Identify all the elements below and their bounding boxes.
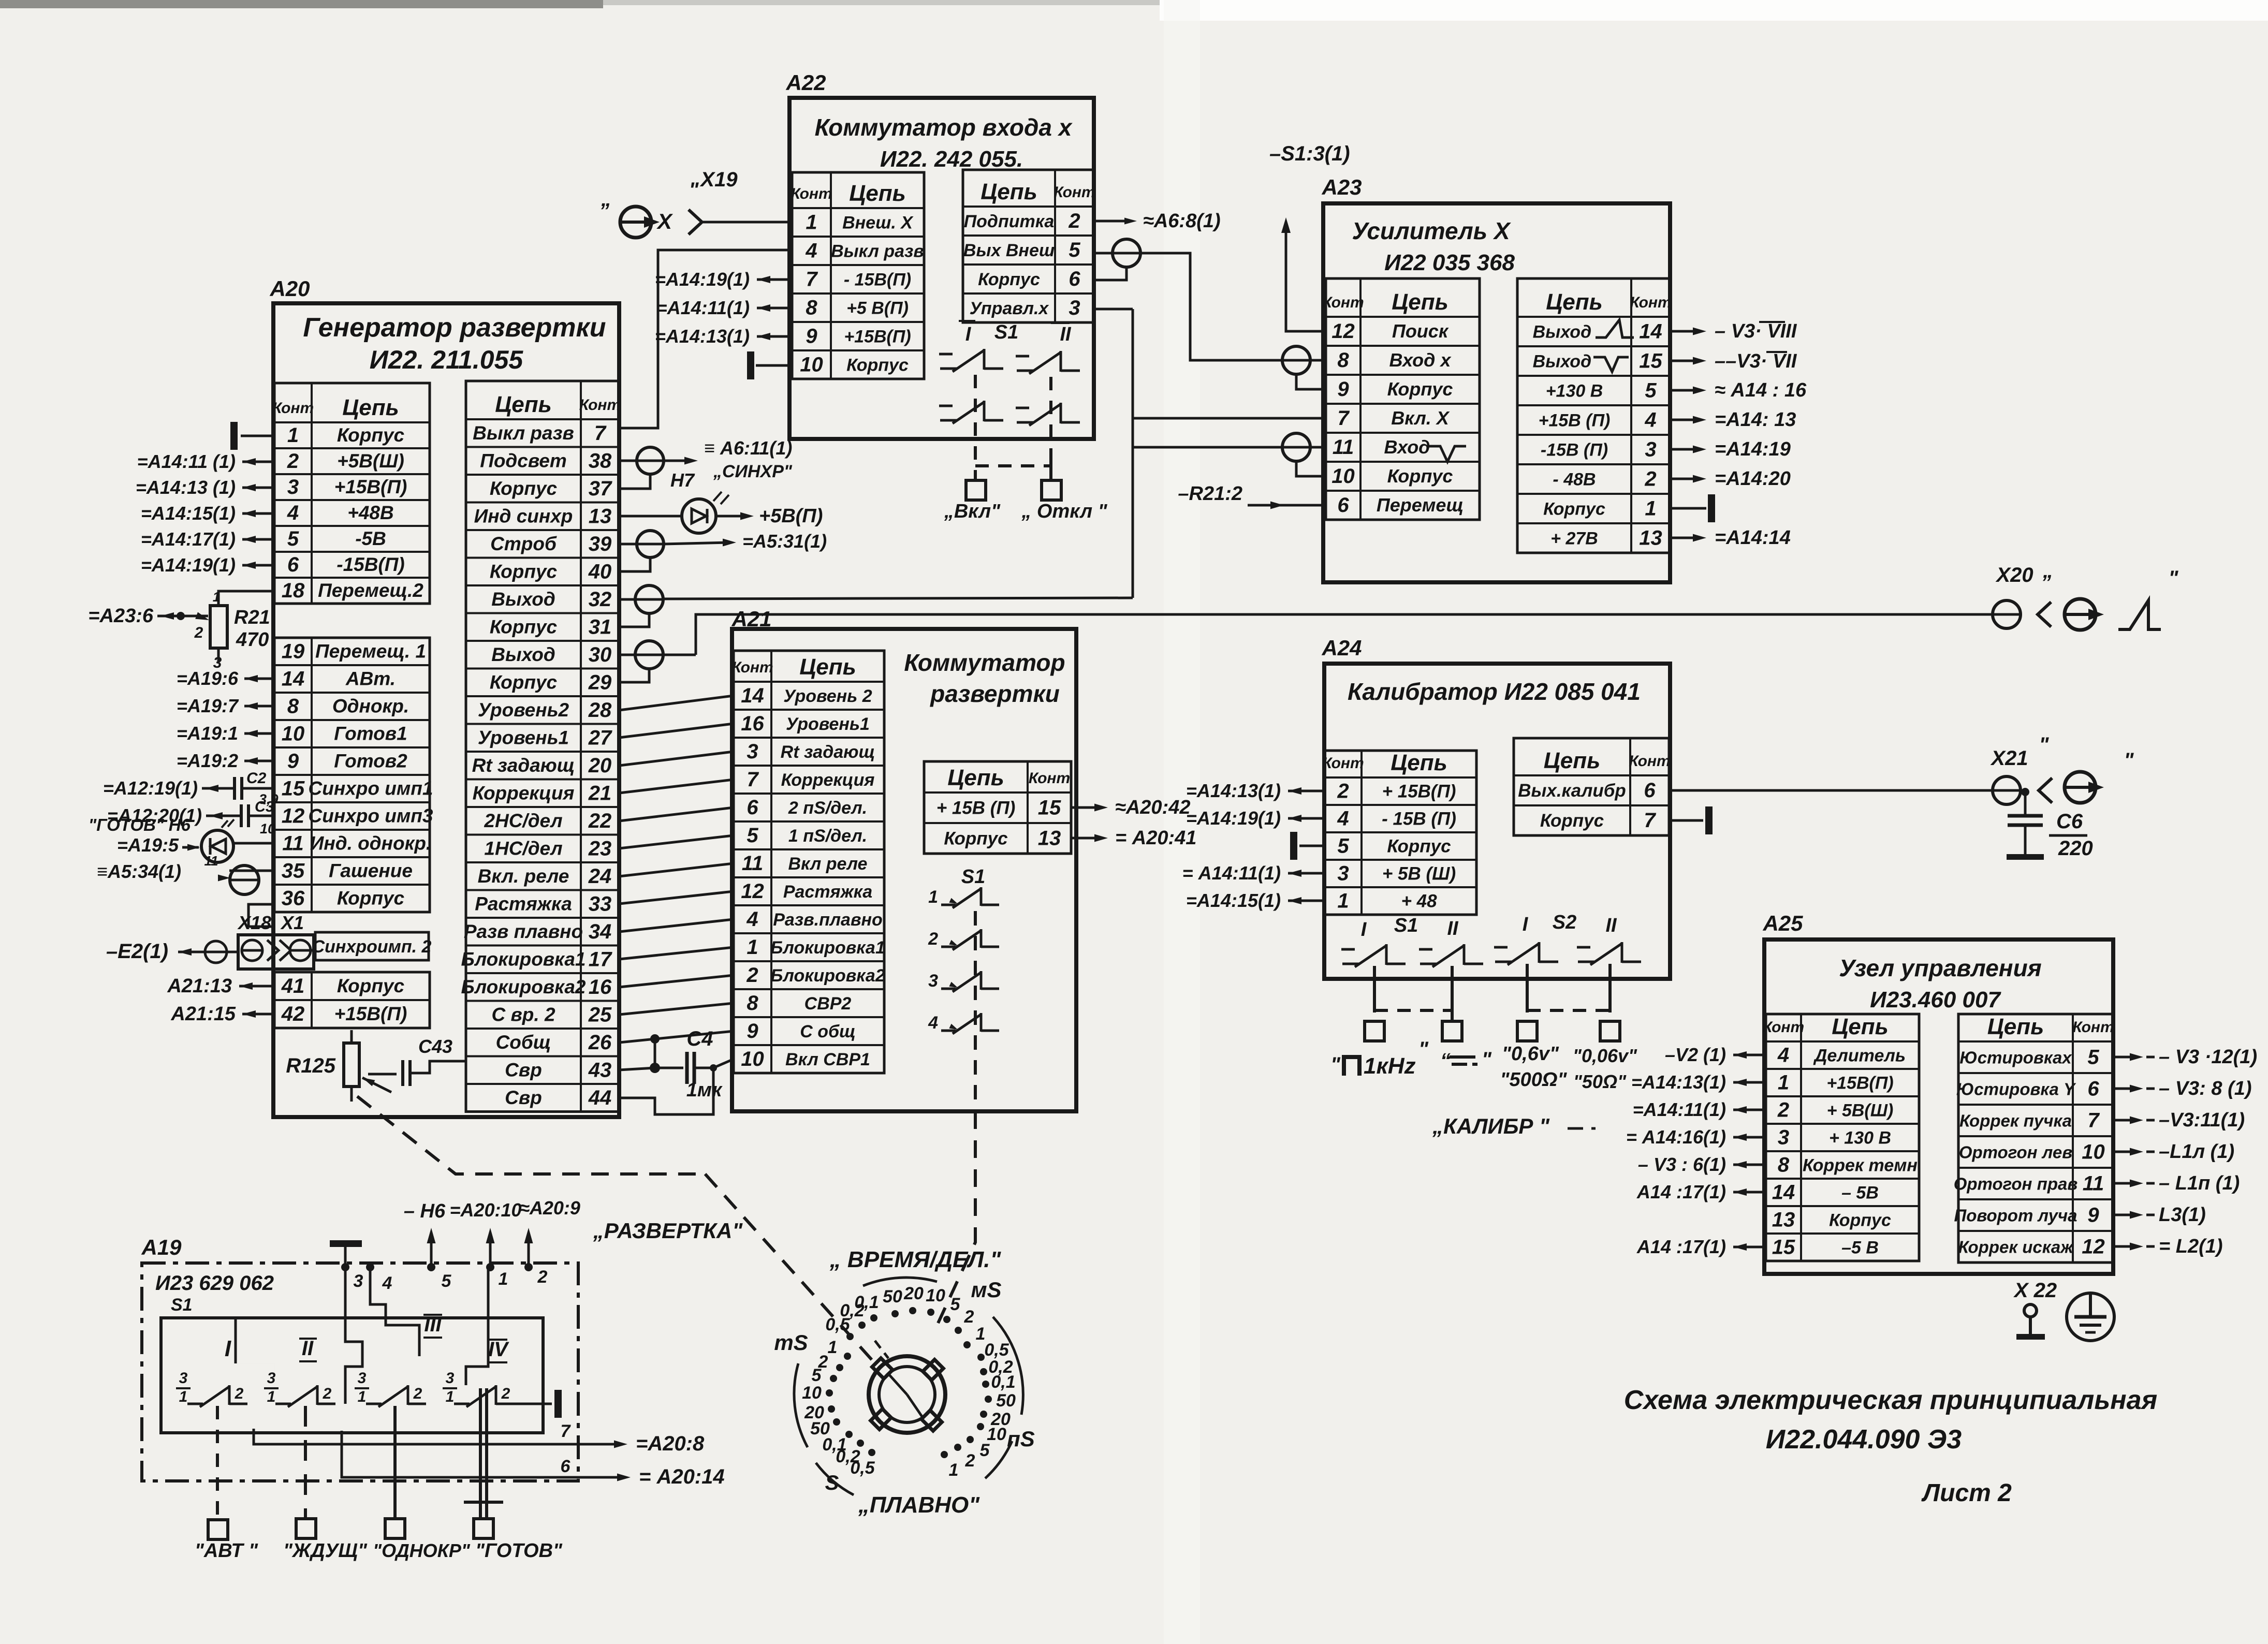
label A14:16 at A25 left	[1733, 1136, 1766, 1139]
svg-text:Ортогон прав: Ортогон прав	[1954, 1175, 2078, 1194]
svg-text:С43: С43	[418, 1036, 452, 1057]
svg-text:Корпус: Корпус	[978, 270, 1040, 289]
A19 contact section IV	[454, 1403, 470, 1405]
svg-text:=А14:15(1): =А14:15(1)	[141, 503, 236, 524]
svg-text:–R21:2: –R21:2	[1178, 483, 1242, 505]
label V3:11 at A25 right	[2114, 1119, 2137, 1122]
svg-text:"500Ω": "500Ω"	[1500, 1069, 1567, 1091]
svg-text:Коррек искаж: Коррек искаж	[1958, 1238, 2074, 1257]
svg-text:-15В (П): -15В (П)	[1541, 441, 1608, 460]
svg-text:2: 2	[746, 964, 758, 987]
wire A20:22 to A21:6	[619, 808, 734, 821]
svg-text:R125: R125	[286, 1054, 335, 1077]
svg-text:10: 10	[1331, 465, 1355, 488]
svg-text:2: 2	[1777, 1099, 1789, 1122]
svg-text:-5В: -5В	[355, 528, 386, 549]
svg-text:4: 4	[287, 502, 299, 524]
svg-text:"50Ω": "50Ω"	[1573, 1071, 1627, 1092]
svg-text:=А14:15(1): =А14:15(1)	[1186, 890, 1281, 911]
svg-text:1: 1	[928, 887, 938, 907]
svg-text:– V3· VIII: – V3· VIII	[1715, 320, 1797, 342]
label A14:17b at A25 left	[1733, 1246, 1766, 1249]
svg-text:III: III	[424, 1313, 442, 1336]
svg-text:13: 13	[1772, 1209, 1795, 1231]
svg-text:14: 14	[1639, 320, 1662, 343]
svg-text:Перемещ: Перемещ	[1377, 494, 1464, 516]
node 3 with ground	[341, 1263, 349, 1271]
svg-text:= А20:14: = А20:14	[639, 1465, 725, 1488]
svg-text:5: 5	[747, 824, 758, 847]
coax jack at A23 pin 11	[1282, 433, 1310, 461]
capacitor C3 10 at A20 pin 12	[248, 815, 274, 817]
svg-text:Х 22: Х 22	[2013, 1279, 2057, 1302]
label =A14:11 at A20 pin 2	[242, 461, 274, 463]
svg-text:=А14:11 (1): =А14:11 (1)	[137, 451, 236, 472]
svg-text:И22 035 368: И22 035 368	[1384, 250, 1515, 275]
dashed control link S1-II to Otkl button	[1049, 377, 1052, 459]
svg-text:Корпус: Корпус	[337, 424, 405, 446]
svg-text:Юстировка Y: Юстировка Y	[1956, 1080, 2076, 1099]
svg-text:А21:15: А21:15	[170, 1003, 236, 1025]
svg-text:–Е2(1): –Е2(1)	[106, 940, 168, 963]
svg-text:38: 38	[589, 449, 612, 472]
svg-text:Инд синхр: Инд синхр	[474, 505, 573, 526]
svg-text:1: 1	[1337, 890, 1349, 913]
svg-text:„Вкл": „Вкл"	[944, 501, 1001, 522]
svg-text:А23: А23	[1321, 175, 1362, 199]
svg-text:3: 3	[1645, 438, 1656, 461]
svg-text:Цепь: Цепь	[1544, 748, 1601, 773]
svg-text:": "	[2124, 749, 2134, 772]
svg-text:+ 48: + 48	[1401, 891, 1437, 912]
svg-text:10: 10	[926, 1286, 945, 1305]
svg-text:Однокр.: Однокр.	[332, 696, 409, 717]
svg-text:17: 17	[589, 948, 612, 971]
svg-text:20: 20	[903, 1284, 924, 1303]
A19 bottom internal bus 6	[342, 1431, 624, 1477]
svg-text:2: 2	[287, 450, 299, 473]
svg-text:= L2(1): = L2(1)	[2159, 1236, 2223, 1257]
svg-text:": "	[689, 179, 699, 201]
svg-text:Вкл СВР1: Вкл СВР1	[785, 1050, 870, 1069]
svg-text:Свр: Свр	[505, 1059, 542, 1080]
svg-text:"0,6v": "0,6v"	[1502, 1043, 1559, 1065]
svg-text:=А12:19(1): =А12:19(1)	[103, 777, 198, 799]
svg-text:„: „	[2042, 560, 2053, 582]
svg-text:Конт: Конт	[1763, 1019, 1804, 1036]
svg-text:37: 37	[589, 477, 612, 500]
svg-text:=А14: 13: =А14: 13	[1715, 409, 1796, 431]
block A21 kommutator razvertki box	[732, 629, 1076, 1111]
svg-text:=А14:20: =А14:20	[1715, 468, 1791, 490]
svg-text:11: 11	[204, 853, 218, 869]
svg-text:36: 36	[282, 887, 305, 910]
svg-text:Узел управления: Узел управления	[1839, 955, 2042, 981]
label =A14:14 at A23 pin 13	[1670, 537, 1700, 539]
svg-text:=А19:5: =А19:5	[117, 834, 179, 856]
S1 contact 3	[941, 988, 956, 990]
label L1l at A25 right	[2114, 1151, 2137, 1153]
S2-I contact	[1495, 961, 1512, 963]
svg-text:=А20:10: =А20:10	[449, 1199, 521, 1221]
wire A20:23 to A21:5	[619, 835, 734, 848]
svg-text:7: 7	[747, 768, 759, 791]
svg-text:1: 1	[806, 211, 817, 234]
svg-text:11: 11	[1333, 436, 1354, 459]
coax jack at A20 pin 39 strob	[619, 543, 637, 546]
svg-text:4: 4	[928, 1013, 938, 1033]
svg-text:4: 4	[382, 1273, 392, 1293]
svg-text:-15В(П): -15В(П)	[336, 554, 404, 575]
svg-text:Перемещ. 1: Перемещ. 1	[315, 641, 426, 662]
svg-text:I: I	[225, 1336, 231, 1361]
wire A20:27 to A21:16	[619, 724, 734, 738]
coax shield to A20 pin 40	[619, 557, 650, 571]
svg-text:2: 2	[323, 1385, 332, 1402]
svg-text:Подпитка: Подпитка	[964, 212, 1055, 231]
coax shield to A20 pin 29	[619, 669, 649, 682]
svg-text:+15В(П): +15В(П)	[844, 327, 911, 347]
svg-text:пS: пS	[1007, 1427, 1035, 1451]
svg-text:= А14:16(1): = А14:16(1)	[1626, 1126, 1726, 1148]
svg-text:1: 1	[1778, 1071, 1789, 1094]
svg-text:С общ: С общ	[800, 1022, 856, 1041]
svg-text:14: 14	[741, 684, 764, 707]
svg-text:IV: IV	[488, 1338, 509, 1361]
label =A6:8 at A22 pin 2	[1094, 220, 1132, 223]
svg-text:3: 3	[1337, 862, 1349, 885]
svg-text:Коррекция: Коррекция	[473, 782, 575, 803]
label =A14:13 at A20 pin 3	[242, 487, 274, 489]
A19 internal wiring III jog	[345, 1267, 362, 1404]
svg-text:5: 5	[2087, 1046, 2099, 1069]
wire A20:44 loop to C4 node	[619, 1068, 713, 1114]
svg-text:– Н6: – Н6	[404, 1200, 446, 1222]
wire A20:21 to A21:7	[619, 780, 734, 793]
svg-text:Схема электрическая принципи: Схема электрическая принципиальная	[1624, 1385, 2157, 1415]
svg-text:II: II	[1447, 918, 1459, 940]
coax shield to A23 pin 9	[1296, 374, 1326, 389]
svg-text:7: 7	[594, 422, 607, 445]
wire A22 pin 5 to A23 pin 8	[1140, 253, 1283, 360]
label =A14:17 at A20 pin 5	[242, 538, 274, 541]
svg-text:С4: С4	[686, 1027, 713, 1050]
svg-text:– 5В: – 5В	[1841, 1183, 1879, 1203]
svg-text:12: 12	[1331, 320, 1355, 343]
label A14:13 at A25 left	[1733, 1081, 1766, 1084]
svg-text:13: 13	[589, 505, 612, 527]
svg-text:+15В(П): +15В(П)	[1826, 1074, 1893, 1093]
label =A20:41 at A21 pin 13	[1071, 837, 1102, 840]
label -R21:2 to A23 pin 6	[1248, 504, 1326, 507]
svg-text:5: 5	[1337, 835, 1349, 858]
svg-text:„ПЛАВНО": „ПЛАВНО"	[858, 1492, 980, 1518]
svg-text:50: 50	[996, 1391, 1016, 1411]
svg-text:Выкл разв: Выкл разв	[831, 242, 924, 261]
svg-text:12: 12	[741, 880, 764, 903]
button 1kHz	[1365, 1021, 1384, 1041]
svg-text:"ГОТОВ" Н6: "ГОТОВ" Н6	[89, 815, 191, 834]
svg-text:6: 6	[1337, 494, 1349, 517]
svg-text:+ 15В (П): + 15В (П)	[937, 798, 1016, 818]
svg-text:Конт: Конт	[579, 397, 621, 414]
svg-text:мS: мS	[971, 1278, 1001, 1302]
wire A20:43 to C4	[619, 1068, 655, 1070]
svg-text:Коррек пучка: Коррек пучка	[1959, 1111, 2072, 1131]
svg-text:Свр: Свр	[505, 1087, 542, 1108]
svg-text:27: 27	[588, 726, 612, 749]
wire A20:16 to A21:2	[619, 975, 734, 987]
svg-text:1кHz: 1кHz	[1364, 1053, 1416, 1079]
svg-text:11: 11	[742, 852, 764, 875]
svg-text:Выход: Выход	[1533, 352, 1616, 372]
svg-text:1 пS/дел.: 1 пS/дел.	[788, 826, 867, 846]
wire A20:28 to A21:14	[619, 696, 734, 710]
svg-text:": "	[2169, 567, 2179, 590]
svg-text:Внеш. Х: Внеш. Х	[842, 213, 914, 233]
wire A20 pin 18 to R21	[218, 591, 274, 606]
wire X19 to A22 pin 1	[703, 221, 792, 224]
switch S1 lower contacts II	[1017, 421, 1033, 424]
svg-text:Конт: Конт	[272, 400, 314, 417]
wire A20:17 to A21:1	[619, 947, 734, 959]
node 5 arrow -H6	[427, 1263, 435, 1271]
svg-text:Юстировках: Юстировках	[1959, 1048, 2072, 1067]
svg-text:9: 9	[747, 1020, 758, 1043]
wire A20:26 to A21:9 with junction	[619, 1031, 734, 1043]
svg-text:≈А20:42: ≈А20:42	[1115, 797, 1191, 818]
svg-text:=А5:31(1): =А5:31(1)	[742, 531, 827, 552]
svg-text:32: 32	[589, 588, 612, 611]
A19 internal wiring IV jog	[466, 1267, 488, 1385]
knob arc S range	[816, 1463, 854, 1495]
svg-text:Блокировка1: Блокировка1	[461, 948, 586, 970]
dashed control link S1-I to Vkl button	[974, 375, 977, 480]
ground at A22 pin 10	[756, 364, 792, 367]
svg-text:Х1: Х1	[280, 912, 304, 933]
svg-text:35: 35	[282, 860, 305, 883]
svg-text:Готов1: Готов1	[334, 723, 407, 744]
svg-text:Цепь: Цепь	[342, 395, 399, 420]
svg-text:Готов2: Готов2	[334, 751, 407, 772]
svg-text:3: 3	[267, 1370, 276, 1387]
svg-text:=А14:19(1): =А14:19(1)	[1186, 808, 1281, 829]
svg-text:5: 5	[1069, 239, 1080, 261]
svg-text:II: II	[1060, 324, 1072, 345]
label =A14:13 at A23 pin 4	[1670, 419, 1700, 421]
svg-text:- 15В (П): - 15В (П)	[1382, 809, 1456, 829]
svg-text:15: 15	[282, 777, 305, 800]
ground at A24 pin 7	[1669, 819, 1703, 822]
svg-text:S1: S1	[1394, 915, 1418, 936]
svg-text:1: 1	[1645, 497, 1656, 520]
label A21:15 at A20 pin 42	[242, 1013, 274, 1016]
svg-text:– V3 : 6(1): – V3 : 6(1)	[1638, 1154, 1726, 1175]
label =A14:19 at A20 pin 6	[242, 564, 274, 567]
svg-text:34: 34	[589, 920, 612, 943]
label -V3 VIII at A23 pin 14	[1670, 330, 1700, 333]
label =A19:2 at A20 pin 9	[244, 760, 274, 762]
svg-text:30: 30	[589, 643, 612, 666]
svg-text:7: 7	[806, 268, 818, 291]
svg-text:2: 2	[537, 1267, 548, 1287]
svg-text:14: 14	[1772, 1181, 1795, 1204]
junction dot at X21	[2021, 788, 2029, 796]
button АВТ with dashed link	[216, 1406, 219, 1520]
svg-text:10: 10	[2082, 1141, 2105, 1164]
svg-text:33: 33	[589, 892, 612, 915]
ground at A23 pin 1	[1670, 507, 1706, 510]
svg-text:Поворот луча: Поворот луча	[1954, 1206, 2077, 1225]
svg-text:1: 1	[179, 1388, 188, 1405]
coax jack at A20 pin 35 =A5:34	[229, 870, 274, 872]
svg-text:470: 470	[236, 629, 269, 651]
svg-text:–5 В: –5 В	[1841, 1238, 1879, 1258]
svg-text:И22. 211.055: И22. 211.055	[370, 345, 524, 374]
svg-text:5: 5	[950, 1295, 961, 1314]
dashed mech line A21 S1 to knob	[938, 1111, 975, 1323]
svg-text:1: 1	[213, 589, 220, 605]
ground at A20 pin 1	[241, 435, 274, 437]
svg-text:А25: А25	[1762, 911, 1803, 935]
svg-text:–S1:3(1): –S1:3(1)	[1269, 142, 1350, 165]
svg-text:Х18: Х18	[237, 912, 271, 933]
svg-text:3: 3	[358, 1370, 367, 1387]
svg-text:Вых Внеш: Вых Внеш	[963, 241, 1055, 260]
wire A20:34 to A21:4	[619, 919, 734, 932]
svg-text:Конт: Конт	[791, 185, 832, 202]
svg-text:= А14:11(1): = А14:11(1)	[1182, 862, 1281, 884]
svg-text:+15В (П): +15В (П)	[1539, 411, 1611, 431]
svg-text:=А14:13(1): =А14:13(1)	[1631, 1071, 1726, 1093]
svg-text:Корпус: Корпус	[490, 478, 558, 499]
svg-text:Калибратор И22 085 041: Калибратор И22 085 041	[1348, 678, 1641, 705]
svg-text:20: 20	[588, 754, 612, 777]
coax jack at A20 pin 38 sinhr	[619, 460, 637, 462]
svg-text:=А14:17(1): =А14:17(1)	[141, 529, 236, 550]
svg-text:––V3· VII: ––V3· VII	[1715, 350, 1797, 372]
svg-text:+ 130 В: + 130 В	[1829, 1128, 1891, 1148]
svg-text:С6: С6	[2056, 810, 2083, 833]
svg-text:И23 629 062: И23 629 062	[155, 1272, 274, 1295]
svg-text:Х21: Х21	[1990, 747, 2028, 770]
svg-text:R21: R21	[234, 607, 270, 628]
knob arc right upper range	[993, 1317, 1023, 1415]
switch S1 lower contacts I	[940, 419, 957, 422]
svg-text:21: 21	[588, 782, 612, 804]
capacitor C6 220	[2024, 792, 2027, 816]
block A25 uzel upravleniya box	[1764, 940, 2113, 1274]
block A24 kalibrator box	[1324, 664, 1670, 979]
svg-text:5: 5	[812, 1366, 822, 1385]
svg-text:Цепь: Цепь	[981, 179, 1037, 204]
svg-text:АВт.: АВт.	[345, 668, 396, 689]
wire A20:33 to A21:12	[619, 891, 734, 904]
A19 switch inner box	[161, 1318, 543, 1433]
svg-text:Коммутатор: Коммутатор	[904, 649, 1065, 676]
label V3:8 at A25 right	[2114, 1088, 2137, 1090]
svg-text:2: 2	[413, 1385, 422, 1402]
S1-II contact	[1420, 963, 1437, 965]
knob arc top range	[863, 1278, 937, 1286]
svg-text:Синхро имп3: Синхро имп3	[309, 805, 433, 827]
svg-text:1НС/дел: 1НС/дел	[484, 838, 562, 859]
button square Otkl	[1042, 480, 1061, 500]
svg-text:Разв плавно: Разв плавно	[464, 921, 583, 942]
svg-text:1: 1	[499, 1269, 508, 1289]
A19 internal wiring from node 4	[370, 1267, 419, 1356]
svg-text:4: 4	[805, 240, 817, 262]
svg-text:3: 3	[747, 740, 758, 763]
svg-text:Ортогон лев: Ортогон лев	[1959, 1143, 2072, 1162]
svg-text:Коммутатор входа х: Коммутатор входа х	[815, 114, 1073, 141]
svg-text:–V2 (1): –V2 (1)	[1665, 1044, 1726, 1065]
svg-text:": "	[1418, 1038, 1429, 1061]
svg-text:2: 2	[194, 624, 203, 641]
svg-text:22: 22	[588, 810, 612, 832]
svg-text:6: 6	[1644, 779, 1656, 802]
svg-text:≈А20:9: ≈А20:9	[519, 1197, 580, 1219]
svg-text:5: 5	[287, 527, 299, 550]
svg-text:26: 26	[588, 1031, 612, 1054]
button ==	[1442, 1021, 1462, 1041]
ground bar right of A19	[554, 1390, 562, 1418]
svg-text:9: 9	[806, 325, 817, 348]
svg-text:I: I	[1361, 919, 1367, 941]
svg-text:развертки: развертки	[929, 680, 1060, 707]
svg-text:2: 2	[1068, 210, 1080, 232]
label =A19:7 at A20 pin 8	[244, 705, 274, 708]
svg-text:4: 4	[1777, 1044, 1789, 1067]
svg-text:39: 39	[589, 533, 612, 555]
capacitor C43	[368, 1073, 397, 1076]
wire from A20 pin 32 output	[663, 598, 1133, 599]
block A20 generator razvertki outer box	[273, 303, 619, 1117]
label -S1:3 with arrow up from A23 pin 12	[1286, 224, 1326, 331]
S1-II drop to button	[1451, 966, 1454, 1021]
svg-text:19: 19	[282, 640, 305, 663]
svg-text:Корпус: Корпус	[1387, 465, 1453, 487]
svg-text:Корпус: Корпус	[944, 829, 1007, 849]
svg-text:13: 13	[1639, 527, 1662, 550]
node 1 arrow =A20:10	[486, 1263, 494, 1271]
svg-text:1: 1	[949, 1460, 959, 1480]
svg-text:– V3: 8 (1): – V3: 8 (1)	[2159, 1078, 2252, 1099]
svg-text:Уровень1: Уровень1	[478, 727, 569, 748]
svg-text:Собщ: Собщ	[496, 1032, 551, 1053]
svg-text:Корпус: Корпус	[1387, 836, 1451, 857]
svg-text:Уровень1: Уровень1	[786, 714, 870, 734]
svg-text:С2: С2	[246, 770, 267, 787]
switch S1 of A22 section II	[1017, 370, 1033, 372]
svg-text:≈А6:8(1): ≈А6:8(1)	[1143, 210, 1221, 232]
knob arc mS range	[794, 1363, 808, 1447]
resistor R21 470	[210, 606, 227, 648]
svg-text:=А14:19(1): =А14:19(1)	[655, 269, 750, 290]
svg-text:Коррекция: Коррекция	[781, 770, 875, 790]
coax jack at A22 pin 5	[1094, 252, 1113, 255]
label =A19:1 at A20 pin 10	[244, 732, 274, 735]
wire A22 pin 4 to A20 pin 7	[619, 250, 792, 428]
svg-text:Блокировка1: Блокировка1	[770, 938, 885, 958]
svg-text:1: 1	[358, 1388, 367, 1405]
svg-text:Строб: Строб	[490, 533, 557, 554]
svg-text:+5В(П): +5В(П)	[759, 505, 823, 527]
button 0,06v	[1600, 1021, 1620, 1041]
svg-text:10: 10	[741, 1048, 764, 1070]
svg-text:=А20:8: =А20:8	[636, 1432, 705, 1455]
svg-text:2: 2	[235, 1385, 244, 1402]
